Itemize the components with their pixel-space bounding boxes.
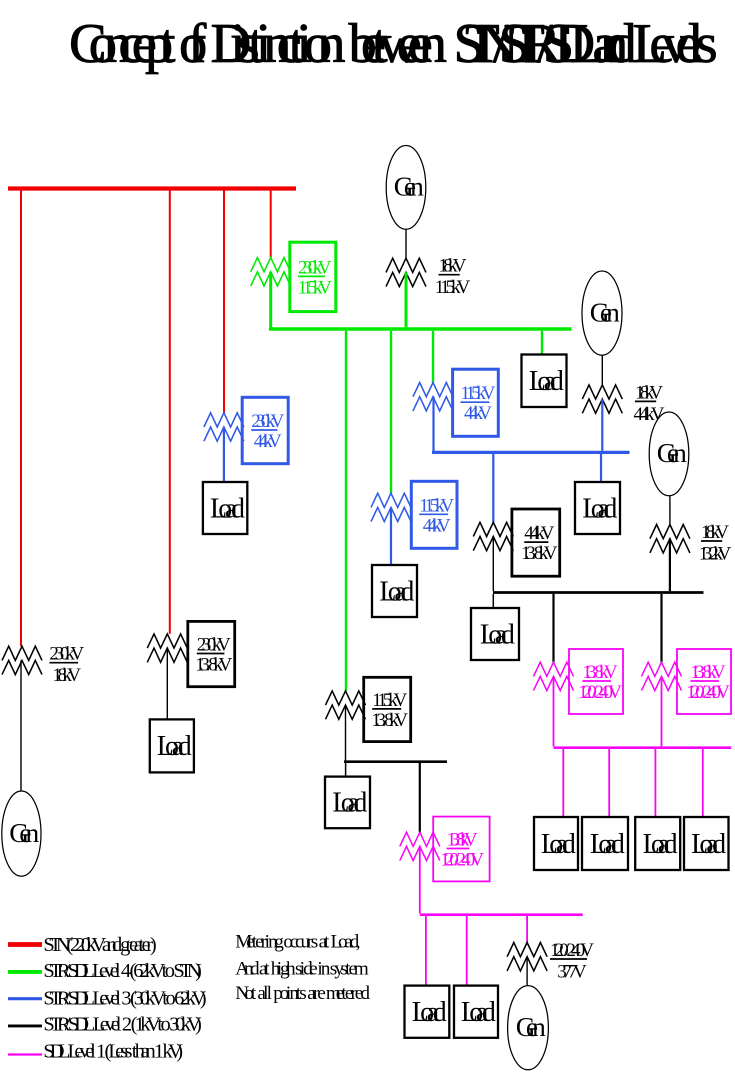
- svg-text:230kV: 230kV: [197, 635, 231, 656]
- generator G5: [508, 986, 549, 1070]
- svg-text:Gen: Gen: [394, 172, 424, 202]
- svg-text:Gen: Gen: [657, 438, 687, 468]
- svg-text:STN/STR/SDL: STN/STR/SDL: [454, 13, 605, 75]
- svg-text:Concept: Concept: [69, 13, 176, 75]
- transformer T9 115kV/13.8kV: [326, 677, 411, 741]
- wire black drop to T12: [660, 594, 662, 662]
- svg-text:STR/SDL Level 4 (62kV to STN): STR/SDL Level 4 (62kV to STN): [43, 960, 201, 982]
- svg-text:44kV: 44kV: [464, 403, 492, 424]
- svg-text:120/240V: 120/240V: [550, 940, 594, 961]
- wire magenta stub to load L13: [425, 916, 427, 986]
- svg-text:Load: Load: [332, 788, 367, 819]
- load L7: [471, 608, 519, 660]
- wire Gen3 to T13: [669, 496, 671, 525]
- wire T8 to black bus: [492, 537, 494, 592]
- transformer T5 18kV/115kV: [386, 256, 471, 299]
- wire T15 to Gen5: [526, 957, 528, 986]
- svg-text:and: and: [593, 13, 637, 75]
- load L4: [522, 355, 567, 408]
- wire blue drop to T8: [492, 454, 494, 522]
- load L12: [325, 777, 370, 829]
- wire T2 to load: [166, 648, 168, 719]
- svg-text:Load: Load: [541, 829, 576, 860]
- svg-text:between: between: [349, 13, 448, 75]
- svg-text:Load: Load: [480, 619, 515, 650]
- svg-text:44kV: 44kV: [254, 431, 282, 452]
- generator G1: [386, 146, 426, 230]
- transformer T11 13.8kV/120-240V: [534, 649, 624, 714]
- wire magenta stub to load L8: [562, 749, 564, 817]
- wire T4 to green bus: [269, 272, 272, 331]
- title: [69, 13, 718, 75]
- svg-text:18kV: 18kV: [53, 665, 82, 686]
- svg-text:13.8kV: 13.8kV: [195, 655, 232, 676]
- wire green drop to T9: [345, 331, 347, 691]
- svg-text:18kV: 18kV: [635, 382, 663, 403]
- load L8: [534, 817, 578, 870]
- svg-text:377V: 377V: [557, 962, 587, 983]
- svg-text:230kV: 230kV: [251, 411, 284, 432]
- wire red feeder 1: [20, 191, 22, 647]
- svg-text:Levels: Levels: [633, 13, 718, 75]
- svg-text:44kV: 44kV: [423, 515, 451, 536]
- wire green drop to T7: [390, 331, 392, 493]
- load L13: [405, 986, 450, 1038]
- legend row 5: [8, 1041, 183, 1063]
- svg-text:13.8kV: 13.8kV: [371, 710, 408, 731]
- load L6: [575, 482, 620, 534]
- svg-text:13.8kV: 13.8kV: [582, 662, 618, 683]
- wire T11 to magenta bus: [553, 676, 555, 746]
- svg-text:Not all points are metered: Not all points are metered: [235, 983, 370, 1004]
- svg-text:115kV: 115kV: [435, 277, 471, 298]
- legend row 2: [8, 960, 202, 982]
- generator G3: [649, 412, 689, 496]
- legend row 4: [8, 1014, 202, 1036]
- svg-text:13.2kV: 13.2kV: [699, 544, 732, 565]
- wire magenta stub to load L14: [466, 916, 468, 986]
- svg-text:STN (220kV and greater): STN (220kV and greater): [43, 934, 156, 956]
- wire magenta stub to load L11: [702, 749, 704, 817]
- transformer T14 13.8kV/120-240V: [400, 817, 490, 882]
- generator G2: [582, 271, 622, 355]
- bus 13.8kV (black) right: [493, 591, 704, 594]
- transformer T2 230kV/13.8kV: [147, 621, 234, 686]
- transformer T8 44kV/13.8kV: [473, 509, 559, 576]
- svg-text:120/240V: 120/240V: [578, 682, 622, 703]
- svg-text:SDL Level 1 (Less than 1 kV): SDL Level 1 (Less than 1 kV): [43, 1041, 183, 1063]
- legend note 2: [235, 958, 368, 979]
- svg-text:120/240V: 120/240V: [440, 850, 484, 871]
- svg-text:115kV: 115kV: [461, 383, 496, 404]
- bus 44kV (blue): [432, 451, 630, 454]
- load L3: [203, 482, 247, 534]
- svg-text:115kV: 115kV: [298, 277, 333, 298]
- wire T13 to black bus: [669, 539, 671, 591]
- load L14: [454, 986, 498, 1038]
- svg-text:18kV: 18kV: [439, 256, 467, 277]
- svg-text:18kV: 18kV: [701, 522, 729, 543]
- wire magenta drop to T15: [526, 916, 528, 943]
- svg-text:of: of: [179, 13, 207, 75]
- svg-text:13.8kV: 13.8kV: [521, 543, 558, 564]
- transformer T12 13.8kV/120-240V: [642, 649, 732, 714]
- legend note 1: [235, 931, 360, 952]
- svg-text:Load: Load: [691, 829, 726, 860]
- bus STN 230kV (red): [8, 186, 296, 190]
- bus 120/240V (magenta) bottom: [420, 913, 583, 916]
- wire red feeder 2: [169, 191, 171, 634]
- svg-text:Gen: Gen: [590, 297, 620, 327]
- svg-text:230kV: 230kV: [49, 644, 84, 665]
- legend row 1: [8, 934, 157, 956]
- wire T7 to load: [390, 507, 392, 565]
- load L2: [150, 719, 194, 772]
- svg-text:115kV: 115kV: [419, 495, 454, 516]
- svg-text:44kV: 44kV: [634, 404, 665, 425]
- svg-text:Load: Load: [529, 366, 564, 397]
- svg-text:STR/SDL Level 2 (1kV to 30kV): STR/SDL Level 2 (1kV to 30kV): [43, 1014, 201, 1036]
- generator G4: [2, 791, 41, 876]
- svg-text:Load: Load: [582, 493, 617, 524]
- wire blue stub to load L6: [600, 454, 602, 482]
- svg-text:Load: Load: [643, 829, 678, 860]
- bus 120/240V (magenta) right: [554, 746, 732, 749]
- transformer T13 18kV/13.2kV: [650, 522, 732, 565]
- legend note 3: [235, 983, 370, 1004]
- wire magenta stub to load L10: [654, 749, 656, 817]
- svg-text:Load: Load: [210, 493, 245, 524]
- svg-text:Load: Load: [379, 576, 414, 607]
- wire T12 to magenta bus: [661, 676, 663, 746]
- wire T1 to Gen4: [20, 660, 22, 791]
- wire T14 to magenta bus 2: [419, 846, 421, 913]
- wire red feeder 4: [270, 191, 272, 258]
- svg-text:STR/SDL Level 3 (30kV to 62kV): STR/SDL Level 3 (30kV to 62kV): [43, 987, 206, 1009]
- svg-text:Gen: Gen: [516, 1012, 546, 1042]
- wire black stub to load L12: [345, 763, 347, 777]
- wire T10 to blue bus: [601, 399, 603, 451]
- svg-text:115kV: 115kV: [372, 690, 407, 711]
- bus 115kV (green): [269, 327, 572, 331]
- wire T5 to green bus: [405, 272, 408, 327]
- wire black drop to T11: [552, 594, 554, 662]
- transformer T6 115kV/44kV: [413, 369, 498, 436]
- bus 13.8kV (black) middle: [344, 760, 447, 763]
- wire red feeder 3: [223, 191, 225, 413]
- svg-text:Load: Load: [590, 829, 625, 860]
- svg-text:Distinction: Distinction: [211, 13, 346, 75]
- wire T9 to black bus 2: [345, 705, 347, 760]
- svg-text:And at high side in system: And at high side in system: [235, 958, 368, 979]
- transformer T15 120/240V-377V: [507, 940, 594, 983]
- wire T3 to load: [223, 427, 225, 482]
- svg-text:Load: Load: [461, 997, 496, 1028]
- load L11: [684, 817, 729, 870]
- wire T6 to blue bus: [432, 397, 434, 453]
- svg-text:Load: Load: [412, 997, 447, 1028]
- svg-text:44kV: 44kV: [524, 523, 554, 544]
- transformer T4 230kV/115kV: [251, 242, 336, 311]
- wire black drop to T14: [419, 763, 421, 832]
- load L10: [635, 817, 680, 870]
- wire Gen1 to T5: [405, 229, 407, 258]
- wire Gen2 to T10: [601, 355, 603, 385]
- wire black stub to load L7: [492, 594, 494, 608]
- wire green drop to T6: [432, 331, 434, 383]
- svg-text:13.8kV: 13.8kV: [447, 830, 478, 851]
- wire green stub to load L4: [541, 331, 543, 355]
- svg-text:Metering occurs at Load,: Metering occurs at Load,: [235, 931, 360, 952]
- svg-text:Load: Load: [157, 731, 192, 762]
- transformer T7 115kV/44kV: [371, 481, 457, 548]
- svg-text:120/240V: 120/240V: [686, 682, 730, 703]
- svg-text:230kV: 230kV: [298, 257, 332, 278]
- legend row 3: [8, 987, 207, 1009]
- wire magenta stub to load L9: [608, 749, 610, 817]
- svg-text:Gen: Gen: [9, 818, 39, 848]
- transformer T10 18kV/44kV: [582, 382, 665, 425]
- load L5: [372, 565, 417, 617]
- svg-text:13.8kV: 13.8kV: [690, 662, 726, 683]
- load L9: [582, 817, 628, 870]
- transformer T1 230kV/18kV: [2, 644, 84, 687]
- transformer T3 230kV/44kV: [204, 397, 288, 463]
